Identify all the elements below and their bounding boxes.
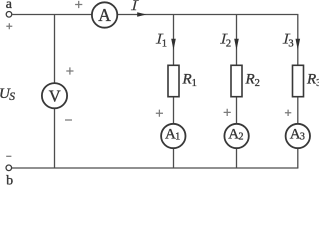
wire: branch 1 top segment bbox=[173, 15, 175, 66]
node label b bbox=[6, 174, 13, 189]
svg-text:2: 2 bbox=[226, 39, 231, 50]
svg-text:V: V bbox=[49, 87, 61, 106]
ammeter A2 bbox=[224, 124, 248, 148]
svg-text:2: 2 bbox=[255, 78, 260, 89]
svg-text:3: 3 bbox=[288, 39, 293, 50]
polarity + of ammeter A1 bbox=[156, 110, 163, 117]
svg-text:R: R bbox=[306, 71, 316, 87]
svg-text:1: 1 bbox=[162, 39, 167, 50]
ammeter U: meter A bbox=[92, 2, 117, 27]
voltmeter V bbox=[42, 83, 67, 108]
svg-text:3: 3 bbox=[300, 132, 305, 143]
wire: branch 2 top segment bbox=[236, 15, 238, 66]
svg-text:b: b bbox=[6, 174, 13, 187]
wire: branch 3 bottom segment bbox=[297, 148, 299, 168]
svg-text:A: A bbox=[98, 5, 111, 25]
wire: branch 1 bottom segment bbox=[173, 148, 175, 168]
current arrow I3 bbox=[296, 39, 301, 50]
terminal b bbox=[6, 165, 12, 171]
svg-text:2: 2 bbox=[239, 132, 244, 143]
wire: bottom bus from terminal b to lower-right corner bbox=[12, 167, 299, 169]
svg-text:3: 3 bbox=[316, 78, 319, 89]
svg-text:S: S bbox=[9, 91, 15, 103]
ammeter A3 bbox=[286, 124, 310, 148]
current arrow I1 bbox=[171, 39, 176, 50]
label I3 bbox=[283, 34, 294, 50]
svg-text:R: R bbox=[245, 71, 255, 87]
wire: branch 3 middle segment bbox=[297, 97, 299, 124]
node label a bbox=[6, 0, 13, 12]
current arrow I2 bbox=[234, 39, 239, 50]
wire: branch 1 middle segment bbox=[173, 97, 175, 124]
polarity + of voltmeter V bbox=[66, 67, 73, 74]
wire: branch 2 bottom segment bbox=[236, 148, 238, 168]
svg-text:1: 1 bbox=[192, 78, 197, 89]
label I2 bbox=[220, 34, 231, 50]
resistor R2 bbox=[231, 65, 242, 96]
resistor R3 bbox=[293, 65, 304, 96]
svg-text:a: a bbox=[6, 0, 13, 12]
ammeter A1 bbox=[161, 124, 185, 148]
wire: top from ammeter A to top-right corner bbox=[117, 14, 298, 16]
wire: branch 2 middle segment bbox=[236, 97, 238, 124]
svg-text:R: R bbox=[182, 71, 192, 87]
label R2 bbox=[245, 71, 260, 88]
polarity + of ammeter A3 bbox=[285, 110, 291, 116]
wire: voltmeter branch upper segment bbox=[54, 15, 56, 84]
wire: voltmeter branch lower segment bbox=[54, 108, 56, 168]
label I1 bbox=[156, 34, 167, 50]
polarity - at terminal b bbox=[6, 155, 11, 157]
wire: top from terminal a to ammeter A bbox=[12, 14, 92, 16]
label I (main current) bbox=[131, 0, 139, 10]
resistor R1 bbox=[168, 65, 179, 96]
label Us bbox=[0, 86, 15, 103]
svg-text:1: 1 bbox=[175, 132, 180, 143]
label R1 bbox=[182, 71, 197, 88]
polarity + at terminal a bbox=[6, 23, 12, 29]
wire: branch 3 top segment bbox=[297, 15, 299, 66]
current arrow I on top wire bbox=[137, 12, 146, 16]
polarity + of ammeter A2 bbox=[224, 109, 231, 116]
label R3 bbox=[306, 71, 320, 88]
terminal a bbox=[6, 12, 12, 18]
polarity + of ammeter A bbox=[75, 1, 82, 8]
polarity - of voltmeter V bbox=[65, 119, 72, 121]
